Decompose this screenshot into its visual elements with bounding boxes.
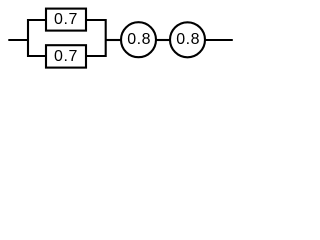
unit B2 value 0.8 — [170, 22, 205, 57]
svg-text:0.8: 0.8 — [176, 31, 200, 48]
wire top branch left — [28, 19, 46, 21]
wire input left — [8, 39, 28, 41]
block A2 value 0.7 — [46, 45, 86, 67]
wire bottom branch left — [28, 55, 46, 57]
block A1 value 0.7 — [46, 9, 86, 31]
wire bottom branch right — [86, 55, 106, 57]
wire rail to unit B1 — [106, 39, 121, 41]
node right rail — [105, 19, 107, 57]
node left rail — [27, 19, 29, 57]
svg-text:0.7: 0.7 — [54, 48, 78, 65]
wire B1 to B2 — [156, 39, 170, 41]
svg-text:0.7: 0.7 — [54, 11, 78, 28]
wire top branch right — [86, 19, 106, 21]
unit B1 value 0.8 — [121, 22, 156, 57]
svg-text:0.8: 0.8 — [127, 31, 151, 48]
wire output right — [205, 39, 233, 41]
